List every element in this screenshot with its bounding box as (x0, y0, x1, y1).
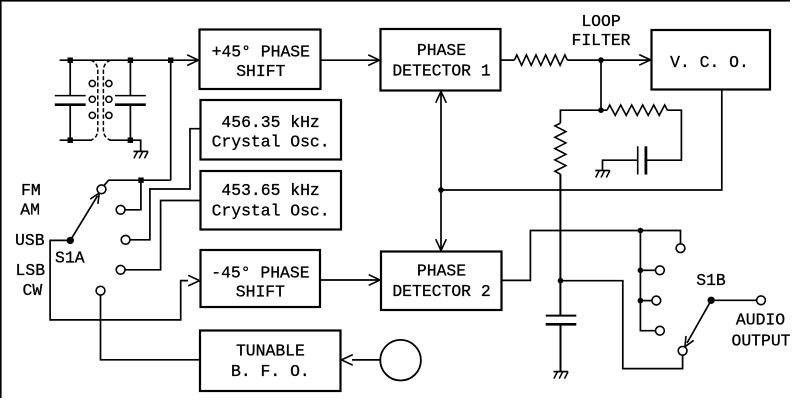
wire (FM/AM node) (104, 180, 171, 186)
wire (S1B bus vertical) (640, 231, 655, 331)
wire (PD2 output to S1B) (502, 231, 681, 281)
wire (bottom rail right) (110, 139, 132, 141)
wire (USB contact to 456 osc) (130, 129, 201, 240)
arrow (into phase detector 1) (368, 55, 379, 66)
junction (top rail / C1) (68, 58, 73, 63)
svg-text:453.65 kHz: 453.65 kHz (221, 181, 319, 200)
contact S1A-USB (121, 235, 130, 244)
junction (top rail / C2) (128, 58, 133, 63)
svg-text:S1A: S1A (55, 249, 85, 268)
wire (-45 shift to phase det 2) (320, 279, 380, 281)
svg-text:AUDIO: AUDIO (736, 311, 785, 330)
arrow (into phase detector 2) (369, 275, 380, 286)
label AUDIO OUTPUT (731, 311, 790, 351)
contact audio output terminal (757, 296, 766, 305)
block VCO U3 (652, 30, 771, 90)
wire (VCO output down and across) (441, 90, 722, 191)
arrow (into BFO from variable osc) (342, 355, 353, 366)
contact S1B-3 (652, 296, 661, 305)
svg-text:SHIFT: SHIFT (236, 62, 285, 81)
svg-text:+45° PHASE: +45° PHASE (212, 43, 310, 62)
wire (S1A pole to -45 shift input) (50, 240, 188, 320)
svg-text:-45° PHASE: -45° PHASE (211, 263, 309, 282)
arrow (S1A wiper points FM) (90, 193, 99, 204)
ground (transformer) (134, 151, 149, 158)
arrow (into -45 phase shift) (188, 275, 199, 286)
wire (to contact 3) (640, 300, 652, 302)
svg-text:FM: FM (21, 181, 41, 200)
arrow (S1B wiper points CW) (685, 336, 694, 347)
ground (audio filter) (554, 372, 569, 379)
svg-text:PHASE: PHASE (417, 262, 466, 281)
contact S1A-FM (97, 185, 106, 194)
wire (AM contact) (125, 180, 141, 210)
wire (to transformer ground) (131, 140, 141, 151)
capacitor C2 (secondary tuning) (115, 60, 146, 140)
wire (detector sum node to CW contact) (561, 281, 683, 369)
wiper arm S1B (687, 300, 711, 343)
resistor R3 (loop filter damping) (607, 105, 667, 115)
svg-text:B. F. O.: B. F. O. (231, 362, 310, 381)
block 456.35 kHz crystal oscillator U4 (201, 100, 342, 160)
junction (S1B bus 3) (638, 298, 644, 304)
capacitor C1 (primary tuning) (55, 60, 86, 140)
svg-text:AM: AM (20, 201, 40, 220)
svg-text:LSB: LSB (16, 261, 46, 280)
ground (loop filter C3) (595, 171, 610, 178)
junction (VCO feedback / detector drive) (438, 187, 444, 193)
svg-text:TUNABLE: TUNABLE (236, 341, 305, 360)
resistor R1 (loop filter series) (514, 55, 567, 65)
arrow (into VCO) (639, 55, 650, 66)
svg-text:Crystal Osc.: Crystal Osc. (212, 201, 330, 220)
wire (CW contact to BFO) (101, 295, 201, 360)
arrow (into +45 phase shift) (187, 55, 198, 66)
wire (R2 down to capacitor C4) (559, 174, 561, 315)
contact S1A-AM (116, 205, 125, 214)
wire (LSB contact to 453 osc) (125, 201, 201, 270)
label CW (23, 281, 43, 300)
block phase detector 2 U7 (381, 252, 502, 311)
wire (to contact 2) (640, 269, 655, 271)
junction (S1B bus top) (638, 228, 644, 234)
junction (sum node) (558, 278, 564, 284)
junction (S1B bus 2) (638, 268, 644, 274)
wire (pole to audio output) (715, 299, 757, 301)
label AM (20, 201, 40, 220)
svg-text:CW: CW (23, 281, 43, 300)
wire (node down) (600, 60, 602, 110)
arrow (down into PD2 top) (436, 239, 447, 250)
transformer T1 primary winding (89, 60, 98, 140)
wire (osc to BFO) (352, 359, 380, 361)
block tunable BFO U8 (200, 331, 341, 392)
label LSB (16, 261, 46, 280)
wire (R1 to VCO) (567, 59, 650, 61)
junction (bottom rail / C2 / ground) (128, 138, 133, 143)
junction (R2/R3 node) (598, 107, 604, 113)
arrow (up into PD1 bottom) (436, 92, 447, 103)
block 453.65 kHz crystal oscillator U5 (201, 171, 342, 230)
wiper arm S1A (70, 196, 97, 241)
junction (bottom rail / C1) (68, 138, 73, 143)
capacitor C4 (audio filter) (546, 316, 577, 372)
block -45 deg phase shift U6 (201, 250, 321, 307)
svg-text:OUTPUT: OUTPUT (731, 331, 790, 350)
wire (mode tap down) (170, 60, 172, 180)
label LOOP FILTER (571, 12, 630, 50)
wire (IF input top rail) (60, 59, 198, 61)
wire (IF input bottom rail left) (60, 139, 92, 141)
contact S1B-5 (selected) (678, 346, 687, 355)
svg-text:S1B: S1B (696, 271, 726, 290)
svg-text:LOOP: LOOP (581, 12, 620, 31)
svg-text:456.35 kHz: 456.35 kHz (221, 113, 319, 132)
capacitor C3 (loop filter) (603, 146, 646, 174)
contact S1B-1 (676, 244, 685, 253)
junction (loop filter node) (598, 57, 604, 63)
svg-text:FILTER: FILTER (571, 31, 630, 50)
junction (FM/AM node) (138, 178, 143, 183)
wire (node to R3) (601, 109, 607, 111)
contact S1A-LSB (116, 265, 125, 274)
contact S1B-2 (656, 266, 665, 275)
svg-text:DETECTOR 1: DETECTOR 1 (392, 61, 491, 80)
oscillator (BFO tuning circle) (380, 340, 421, 381)
label USB (15, 231, 45, 250)
resistor R2 (vertical, loop filter) (555, 123, 566, 174)
wire (drive line vertical) (440, 93, 442, 251)
svg-text:DETECTOR 2: DETECTOR 2 (392, 282, 490, 301)
contact S1A-CW (96, 286, 105, 295)
block phase detector 1 U2 (381, 29, 501, 91)
contact S1B-4 (656, 326, 665, 335)
pole S1A (wiper common) (67, 237, 74, 244)
svg-text:Crystal Osc.: Crystal Osc. (212, 132, 330, 151)
transformer T1 secondary winding (103, 60, 112, 140)
wire (R3 to C3) (647, 110, 682, 160)
label S1A (55, 249, 85, 268)
svg-text:SHIFT: SHIFT (236, 283, 285, 302)
svg-text:USB: USB (15, 231, 45, 250)
wire (PD1 output) (501, 59, 515, 61)
wire (+45 shift to phase det 1) (321, 59, 380, 61)
svg-text:V. C. O.: V. C. O. (670, 53, 749, 72)
label FM (21, 181, 41, 200)
block +45 deg phase shift U1 (200, 30, 321, 90)
svg-text:PHASE: PHASE (417, 41, 466, 60)
pole S1B (wiper common) (708, 297, 715, 304)
wire (node to R2) (560, 110, 601, 123)
label S1B (696, 271, 726, 290)
junction (top rail / mode-select tap) (168, 58, 173, 63)
